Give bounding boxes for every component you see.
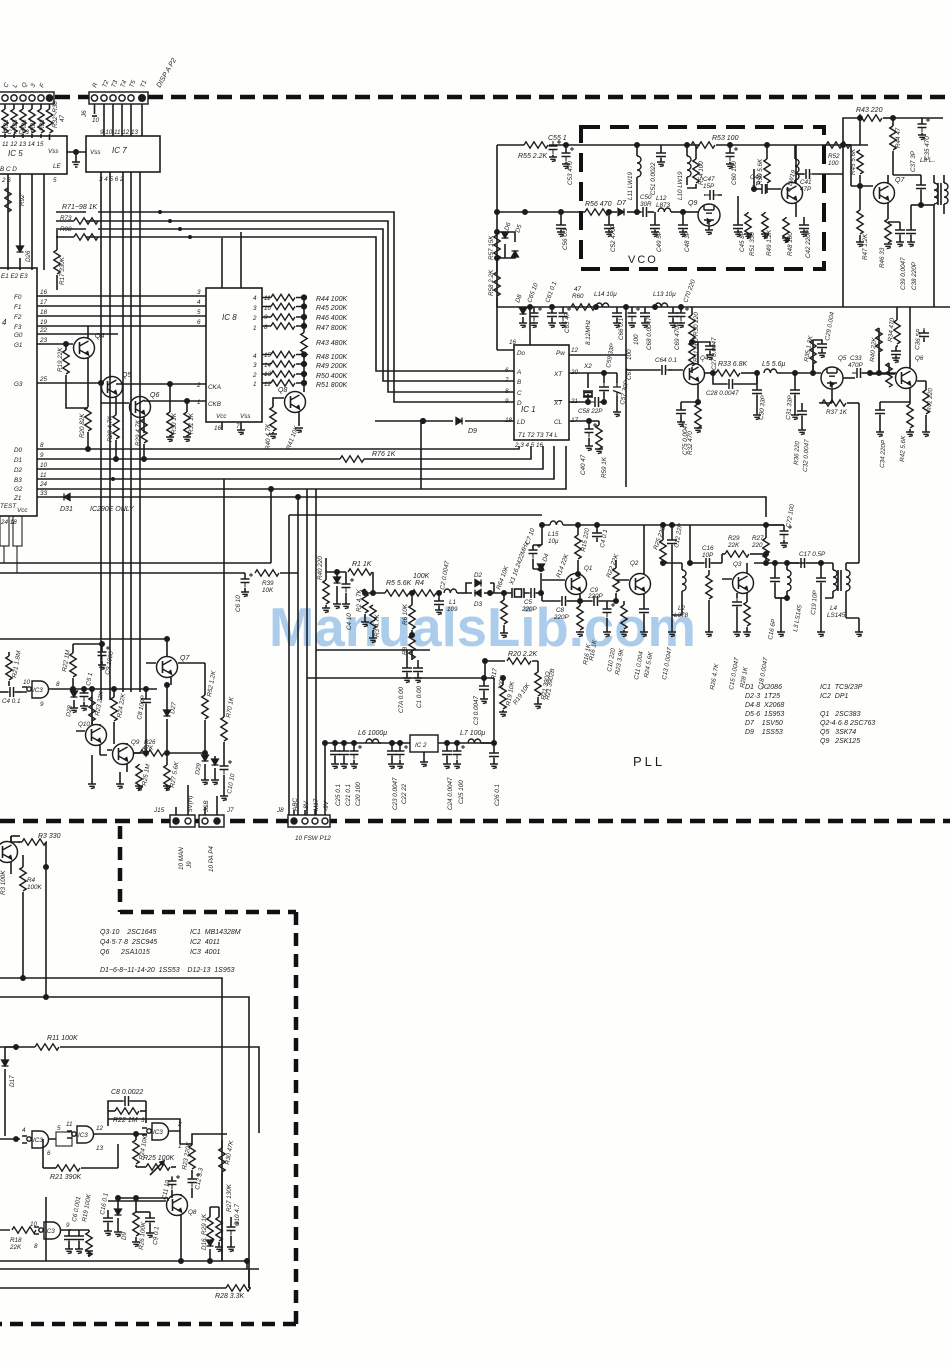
inductor L6 1000u bbox=[366, 739, 381, 743]
resistor R21b 390 (vertical) bbox=[534, 671, 542, 709]
svg-text:C65 10: C65 10 bbox=[526, 282, 540, 304]
resistors R83-R88 column under P1 bbox=[2, 104, 53, 140]
resistor R5 5.6K bbox=[385, 590, 414, 596]
svg-text:Q6 2SA1015: Q6 2SA1015 bbox=[100, 949, 150, 956]
wire G3 junction bbox=[99, 381, 103, 385]
wire left verticals to J8 bbox=[289, 489, 542, 815]
resistor R33 6.8K bbox=[716, 370, 759, 376]
svg-text:Do: Do bbox=[517, 350, 526, 357]
svg-text:Q8: Q8 bbox=[278, 387, 287, 394]
svg-text:C47: C47 bbox=[703, 176, 715, 183]
svg-text:T2: T2 bbox=[101, 79, 110, 89]
svg-text:22K: 22K bbox=[9, 1244, 22, 1251]
svg-text:T5: T5 bbox=[128, 79, 137, 89]
border: VCO dashed box bbox=[581, 127, 824, 269]
inductor L15a 10u bbox=[655, 303, 668, 307]
svg-text:R41 10K: R41 10K bbox=[285, 425, 300, 451]
wire CKA/CKB verticals bbox=[222, 232, 241, 288]
svg-text:L6 1000μ: L6 1000μ bbox=[358, 730, 387, 737]
svg-text:IC3: IC3 bbox=[153, 1129, 163, 1136]
svg-text:Q7: Q7 bbox=[895, 177, 905, 184]
svg-text:D27: D27 bbox=[169, 701, 178, 714]
svg-text:Q3: Q3 bbox=[733, 561, 742, 568]
svg-text:Vcc: Vcc bbox=[216, 413, 227, 420]
wire C7/D4 tie to rail bbox=[533, 525, 543, 571]
NAND gate IC3b g3 bbox=[142, 1123, 180, 1140]
svg-text:C57 30P: C57 30P bbox=[619, 379, 630, 405]
svg-text:15: 15 bbox=[264, 352, 272, 359]
svg-text:C5: C5 bbox=[524, 599, 533, 606]
svg-text:G2: G2 bbox=[14, 486, 23, 493]
resistor R70 1K (vertical) bbox=[221, 479, 227, 762]
svg-text:D29: D29 bbox=[194, 762, 203, 775]
svg-text:16: 16 bbox=[214, 425, 222, 432]
capacitor C9 1000 bbox=[73, 642, 110, 670]
svg-text:R39: R39 bbox=[262, 580, 274, 587]
resistor R64 10K (vertical) bbox=[500, 591, 508, 638]
connector J8 bbox=[288, 815, 330, 827]
transistor Q8 bbox=[273, 383, 306, 426]
svg-text:2 6: 2 6 bbox=[1, 177, 11, 184]
svg-text:R24 22K: R24 22K bbox=[116, 692, 127, 718]
svg-text:23: 23 bbox=[39, 337, 48, 344]
diode D8 bbox=[519, 307, 527, 328]
resistor R59 1K bbox=[589, 421, 603, 454]
g1 pin labels bbox=[22, 1125, 61, 1157]
resistor R54 100 (vertical) bbox=[687, 145, 699, 188]
resistor R22 1M (vertical) bbox=[70, 644, 76, 691]
inductor L2 (vertical) bbox=[663, 563, 686, 615]
svg-text:100K: 100K bbox=[497, 674, 507, 690]
svg-text:9: 9 bbox=[66, 1222, 70, 1229]
svg-text:3: 3 bbox=[141, 1117, 145, 1124]
resistor R39 10K bbox=[255, 495, 300, 576]
resistor R44 47 (vertical) bbox=[890, 118, 896, 175]
svg-text:R47 800K: R47 800K bbox=[316, 325, 347, 332]
capacitor C40 47 on CL pin bbox=[569, 419, 597, 451]
capacitor C12b 3.3 bbox=[188, 1173, 201, 1198]
IC8 VCC/VSS ground stubs bbox=[222, 422, 245, 435]
svg-text:Z1: Z1 bbox=[13, 495, 21, 502]
capacitor C62 (electrolytic) bbox=[628, 307, 641, 328]
svg-text:L10 LW19: L10 LW19 bbox=[677, 171, 684, 200]
svg-text:11: 11 bbox=[66, 1121, 73, 1128]
diode D28 bbox=[70, 689, 78, 713]
svg-text:R28 4.7K: R28 4.7K bbox=[107, 415, 114, 442]
wire J8 stubs bbox=[294, 743, 325, 815]
svg-text:R17 330K: R17 330K bbox=[59, 256, 66, 285]
svg-text:L11 LW19: L11 LW19 bbox=[627, 171, 634, 200]
wire x859 vertical Q5 to L4 bbox=[858, 403, 860, 563]
transistor Q4 bbox=[37, 326, 95, 407]
svg-text:R43 220: R43 220 bbox=[856, 107, 883, 114]
resistor R40 4.7K bbox=[269, 407, 277, 439]
wire IC1 pin16 to rail bbox=[497, 307, 530, 350]
inductor L15 10u bbox=[550, 521, 563, 525]
svg-text:D7 1SV50: D7 1SV50 bbox=[745, 720, 783, 727]
R52 100 wire to right bbox=[843, 144, 868, 146]
svg-text:IC 1: IC 1 bbox=[521, 405, 536, 414]
svg-text:R2 4.7K: R2 4.7K bbox=[356, 588, 363, 612]
wire y650 bbox=[316, 649, 430, 651]
svg-text:R44 47: R44 47 bbox=[895, 127, 902, 148]
svg-text:IC1 MB14328M: IC1 MB14328M bbox=[190, 929, 241, 936]
resistor R28 4.7K bbox=[113, 415, 119, 461]
svg-text:6: 6 bbox=[197, 319, 201, 326]
svg-text:C8: C8 bbox=[556, 607, 565, 614]
svg-text:100K: 100K bbox=[27, 884, 43, 891]
capacitor C60 100 bbox=[726, 145, 739, 169]
capacitor C4a 10 bbox=[342, 572, 355, 609]
svg-text:F1: F1 bbox=[14, 304, 21, 311]
resistor R6 10K (vertical) bbox=[409, 593, 415, 637]
transistor Q10 bbox=[76, 724, 107, 755]
resistor R27b 130K vertical bbox=[210, 1207, 223, 1252]
svg-text:220P: 220P bbox=[587, 593, 604, 600]
svg-text:C23 0.0047: C23 0.0047 bbox=[392, 777, 399, 810]
svg-text:D2·3 1T25: D2·3 1T25 bbox=[745, 693, 780, 700]
svg-text:220P: 220P bbox=[553, 614, 570, 621]
svg-text:14: 14 bbox=[264, 362, 272, 369]
svg-text:C40 47: C40 47 bbox=[580, 454, 587, 475]
gate IC3b g4 bbox=[0, 1222, 71, 1239]
wire bottom horizontals bbox=[0, 1259, 259, 1288]
svg-text:2: 2 bbox=[196, 382, 201, 389]
svg-text:D0: D0 bbox=[14, 447, 23, 454]
resistor R40b 22K (vertical) bbox=[870, 328, 896, 375]
capacitor C38 220P bbox=[906, 205, 916, 247]
transformer L8 bbox=[921, 175, 948, 230]
resistor R30 1K with ground bbox=[166, 384, 174, 442]
resistor R23b 220K (vertical) bbox=[189, 1144, 195, 1175]
svg-text:C66 0.1: C66 0.1 bbox=[618, 318, 625, 340]
svg-text:C26 0.1: C26 0.1 bbox=[494, 784, 501, 806]
trimmer C57 30P bbox=[604, 373, 621, 417]
PLL parts list left column bbox=[745, 684, 784, 736]
svg-text:C36 5P: C36 5P bbox=[914, 328, 923, 350]
capacitor C63 47 bbox=[559, 307, 572, 328]
resistor R4 100K bbox=[412, 590, 441, 596]
capacitor C25 0.1 bbox=[330, 743, 340, 769]
transistor Q2 bbox=[616, 525, 651, 601]
svg-text:R19 100K: R19 100K bbox=[81, 1193, 93, 1223]
IC5 labels bbox=[0, 129, 62, 184]
svg-text:C16: C16 bbox=[702, 545, 714, 552]
svg-text:D7: D7 bbox=[617, 200, 627, 207]
resistor R3 4.7K (vertical) bbox=[369, 605, 377, 643]
svg-text:C48 3P: C48 3P bbox=[684, 230, 691, 252]
NAND gate IC3b g1 bbox=[0, 1131, 56, 1148]
svg-text:A: A bbox=[516, 369, 521, 376]
resistor R19 22K bbox=[63, 342, 88, 408]
transistor Q4 pll bbox=[672, 342, 705, 402]
svg-text:R27: R27 bbox=[752, 535, 764, 542]
resistor R58 2.2K (vertical) bbox=[494, 258, 500, 307]
capacitor C29 0.0047 bbox=[813, 339, 827, 358]
svg-text:4: 4 bbox=[197, 299, 201, 306]
svg-text:T3: T3 bbox=[110, 79, 119, 89]
svg-text:16: 16 bbox=[509, 339, 517, 346]
svg-text:C4 10: C4 10 bbox=[346, 613, 353, 630]
J15 wire stubs bbox=[176, 785, 188, 815]
svg-text:L2: L2 bbox=[678, 605, 686, 612]
svg-text:C52 470P: C52 470P bbox=[610, 223, 617, 252]
svg-text:B3: B3 bbox=[14, 477, 22, 484]
svg-text:2 3 4 5 16: 2 3 4 5 16 bbox=[514, 442, 544, 449]
svg-text:33: 33 bbox=[40, 490, 48, 497]
svg-text:C19 10P: C19 10P bbox=[810, 589, 819, 615]
svg-text:C46: C46 bbox=[750, 174, 762, 181]
crystal X2 bbox=[569, 373, 604, 402]
svg-text:3 4 5 6 2: 3 4 5 6 2 bbox=[99, 176, 124, 183]
svg-text:R15 220: R15 220 bbox=[580, 527, 591, 552]
transistor Q7 low bbox=[146, 657, 178, 686]
svg-text:F0: F0 bbox=[14, 294, 22, 301]
J7 wire stubs bbox=[205, 796, 217, 815]
svg-text:C68 0.0047: C68 0.0047 bbox=[646, 317, 653, 350]
capacitor C11 0.0047 below Q2 bbox=[639, 601, 649, 637]
svg-text:Q9 2SK125: Q9 2SK125 bbox=[820, 738, 860, 745]
svg-text:24 18: 24 18 bbox=[0, 519, 17, 526]
capacitor C34 220P (vertical) bbox=[875, 402, 910, 437]
capacitor C31 33P (vertical) bbox=[790, 373, 800, 420]
svg-text:R3 100K: R3 100K bbox=[0, 870, 7, 895]
resistor R51 330 (vertical) bbox=[744, 212, 752, 239]
resistor R76 1K in D1 line bbox=[340, 455, 364, 463]
svg-text:XT: XT bbox=[553, 371, 563, 378]
svg-text:J8: J8 bbox=[276, 807, 284, 814]
svg-text:R3 330: R3 330 bbox=[38, 833, 61, 840]
resistor R29b 22K bbox=[722, 551, 766, 563]
wire rail y743 bbox=[323, 741, 496, 745]
svg-text:C49 5P: C49 5P bbox=[656, 230, 663, 252]
resistor R20 82K bbox=[85, 407, 91, 451]
svg-text:C29 0.004: C29 0.004 bbox=[824, 311, 836, 341]
wire Pw pin bbox=[569, 307, 626, 487]
svg-text:B C D: B C D bbox=[0, 166, 17, 173]
svg-text:3: 3 bbox=[29, 82, 37, 89]
svg-text:ManualsLib.com: ManualsLib.com bbox=[269, 597, 696, 658]
wire row y572 bbox=[326, 570, 346, 574]
svg-text:11: 11 bbox=[40, 472, 47, 479]
connector J6 DISP A P2 bbox=[89, 92, 148, 104]
svg-text:L5 5.6μ: L5 5.6μ bbox=[762, 361, 785, 368]
svg-text:16: 16 bbox=[40, 289, 48, 296]
resistor R27 5.6K (vertical) bbox=[163, 751, 171, 791]
svg-text:D16, R29 1K: D16, R29 1K bbox=[201, 1213, 208, 1250]
capacitor C28 0.0047 (bypass) bbox=[713, 373, 757, 389]
svg-text:D5·6 1S953: D5·6 1S953 bbox=[745, 711, 784, 718]
svg-text:9: 9 bbox=[40, 452, 44, 459]
transistor Q11 bbox=[107, 743, 134, 772]
svg-text:R4: R4 bbox=[415, 580, 424, 587]
svg-text:R29: R29 bbox=[728, 535, 740, 542]
svg-text:C30 33P: C30 33P bbox=[758, 394, 767, 420]
NAND gate IC3b g2 bbox=[67, 1126, 108, 1143]
capacitor C12 22P (vertical) bbox=[667, 525, 677, 595]
resistor R16 1K (vertical) below Q1 bbox=[576, 601, 584, 637]
transistor Q7 bbox=[874, 175, 895, 217]
diode D17 (vertical) bbox=[2, 1047, 17, 1136]
svg-text:Q6: Q6 bbox=[150, 392, 159, 399]
svg-text:Q4: Q4 bbox=[700, 355, 709, 362]
svg-text:R52 1.2K: R52 1.2K bbox=[206, 669, 218, 697]
svg-text:R70 1K: R70 1K bbox=[225, 696, 236, 719]
resistor R26 4.7K (vertical) bbox=[705, 570, 713, 637]
capacitor C65 10 bbox=[530, 307, 543, 328]
svg-text:7: 7 bbox=[505, 377, 509, 384]
wire Q7 base bbox=[851, 145, 873, 186]
svg-text:18: 18 bbox=[505, 417, 513, 424]
svg-text:Q5: Q5 bbox=[838, 355, 847, 362]
wires J6 to IC7 bbox=[92, 104, 142, 136]
IC4 box (cut at left edge) bbox=[0, 268, 37, 516]
svg-text:24: 24 bbox=[39, 481, 48, 488]
capacitor C68 0.0047 bbox=[640, 307, 650, 328]
svg-text:R43 480K: R43 480K bbox=[316, 340, 347, 347]
connector P1 pin labels bbox=[2, 81, 46, 88]
capacitor C33 470P bbox=[843, 368, 872, 378]
svg-text:IC 7: IC 7 bbox=[112, 146, 127, 155]
svg-text:Q5: Q5 bbox=[122, 372, 131, 379]
diode D4 bbox=[538, 564, 545, 595]
svg-text:D4·8 X2068: D4·8 X2068 bbox=[745, 702, 784, 709]
svg-text:C38 220P: C38 220P bbox=[911, 261, 918, 290]
svg-text:D2: D2 bbox=[14, 467, 23, 474]
svg-text:R30 1K: R30 1K bbox=[171, 412, 178, 434]
svg-text:F2: F2 bbox=[14, 314, 22, 321]
diode D30 (vertical) bbox=[211, 756, 219, 785]
svg-text:1P: 1P bbox=[752, 181, 761, 188]
capacitor C46 1P bbox=[752, 169, 771, 194]
connector P1 (top-left, cut) bbox=[0, 92, 54, 104]
svg-text:470P: 470P bbox=[848, 362, 864, 369]
bottom connector rotated labels bbox=[178, 835, 331, 872]
capacitor C5 1 bbox=[80, 687, 93, 711]
svg-text:9: 9 bbox=[505, 398, 509, 405]
grounds under Q10/Q11 bbox=[88, 755, 124, 789]
FET Q5 pll bbox=[795, 367, 843, 403]
svg-text:IC 5: IC 5 bbox=[8, 149, 23, 158]
svg-text:R20 82K: R20 82K bbox=[79, 413, 86, 438]
capacitor C72 100 bbox=[766, 525, 792, 548]
resistor ladder R44-R47 bbox=[262, 294, 306, 332]
capacitor C24 0.0047 bbox=[442, 743, 452, 769]
svg-text:C4 0.1: C4 0.1 bbox=[2, 698, 21, 705]
svg-text:8: 8 bbox=[56, 681, 60, 688]
resistor R47 1.2K (vertical) bbox=[856, 197, 864, 247]
svg-text:C31 33P: C31 33P bbox=[785, 394, 794, 420]
svg-text:22: 22 bbox=[39, 327, 48, 334]
PLL parts list right column bbox=[820, 684, 875, 745]
wire Q10-Q11 links bbox=[92, 697, 205, 755]
svg-text:R76 1K: R76 1K bbox=[372, 451, 396, 458]
svg-text:R41 220: R41 220 bbox=[926, 387, 934, 412]
svg-text:C60 100: C60 100 bbox=[731, 161, 738, 185]
capacitor C3 0.0047 bbox=[479, 678, 489, 704]
resistor R4 100K (vertical) bbox=[20, 855, 26, 978]
svg-text:L14 10μ: L14 10μ bbox=[594, 291, 617, 298]
svg-text:C3 0.0047: C3 0.0047 bbox=[473, 695, 480, 725]
capacitor C64 0.1 bbox=[626, 365, 672, 375]
capacitor C8 0.0022 bbox=[108, 1096, 146, 1111]
svg-text:100: 100 bbox=[626, 349, 633, 360]
svg-text:10 PA P4: 10 PA P4 bbox=[208, 846, 215, 872]
svg-text:R45 200K: R45 200K bbox=[316, 305, 347, 312]
svg-text:C: C bbox=[517, 390, 522, 397]
diode D9b vertical bbox=[114, 1196, 122, 1237]
transistor Q1 bbox=[542, 574, 587, 602]
svg-text:E1 E2 E3: E1 E2 E3 bbox=[1, 273, 28, 280]
resistor R29 4.7K bbox=[141, 419, 147, 461]
svg-text:C22 22: C22 22 bbox=[401, 783, 408, 804]
connector J7 bbox=[199, 815, 224, 827]
svg-text:8: 8 bbox=[264, 324, 268, 331]
capacitor C4b 0.1 bbox=[592, 525, 602, 542]
svg-text:R40 22K: R40 22K bbox=[869, 336, 878, 362]
svg-text:R19 22K: R19 22K bbox=[57, 347, 64, 372]
resistor R30b 47K (vertical) bbox=[219, 1140, 225, 1261]
svg-text:C28 0.0047: C28 0.0047 bbox=[706, 390, 739, 397]
capacitor C8 220P bbox=[542, 593, 582, 606]
svg-text:109: 109 bbox=[447, 606, 458, 613]
svg-text:R51 800K: R51 800K bbox=[316, 382, 347, 389]
resistor R22 22K (vertical) bbox=[613, 560, 619, 601]
wires below IC7 (5 long verticals) bbox=[101, 172, 140, 700]
IC5 box bbox=[0, 136, 67, 174]
svg-text:220: 220 bbox=[751, 542, 763, 549]
IC4 labels bbox=[0, 273, 48, 514]
svg-text:R71~98 1K: R71~98 1K bbox=[62, 204, 98, 211]
svg-text:R59 1K: R59 1K bbox=[601, 456, 608, 478]
capacitor C74 0.0047 bbox=[402, 650, 412, 683]
svg-text:10: 10 bbox=[30, 1221, 38, 1228]
svg-text:R1 1K: R1 1K bbox=[352, 561, 372, 568]
svg-text:L15: L15 bbox=[548, 531, 559, 538]
svg-text:R32 470: R32 470 bbox=[687, 431, 694, 455]
capacitor C69 470P bbox=[668, 307, 678, 328]
svg-text:D9 1SS53: D9 1SS53 bbox=[745, 729, 783, 736]
svg-text:T4: T4 bbox=[119, 79, 128, 89]
svg-text:R21 1.8M: R21 1.8M bbox=[11, 650, 23, 679]
svg-text:47P: 47P bbox=[800, 186, 812, 193]
svg-text:R48 100: R48 100 bbox=[787, 232, 794, 256]
svg-text:C1 0.00: C1 0.00 bbox=[416, 685, 423, 708]
svg-text:R37 1K: R37 1K bbox=[826, 409, 848, 416]
transistor Q5 bbox=[37, 377, 206, 416]
svg-text:D4: D4 bbox=[541, 552, 551, 562]
capacitor C61 0.1 bbox=[547, 307, 557, 328]
svg-text:X1 16.2422MHz: X1 16.2422MHz bbox=[508, 540, 531, 587]
svg-text:D31: D31 bbox=[60, 506, 73, 513]
connector J15 bbox=[170, 815, 195, 827]
svg-text:-8V: -8V bbox=[303, 800, 310, 811]
resistor R21 1.8M (vertical) bbox=[6, 652, 12, 686]
bus wires with corner turns into IC1 A,B,C,D bbox=[56, 212, 514, 402]
svg-text:10 FSW P12: 10 FSW P12 bbox=[295, 835, 331, 842]
crystal X1 bbox=[490, 588, 529, 598]
g2 pin labels bbox=[66, 1121, 104, 1152]
svg-text:C25 100: C25 100 bbox=[458, 780, 465, 804]
ladder labels bbox=[316, 296, 347, 389]
resistor R24 22K (vertical) bbox=[111, 689, 117, 743]
svg-text:PLL: PLL bbox=[633, 754, 665, 769]
bus junction dots bbox=[86, 447, 146, 481]
wire Q4 output y373 bbox=[705, 371, 715, 375]
capacitor C2 0.0047 bbox=[434, 593, 444, 615]
svg-text:R27 130K: R27 130K bbox=[226, 1183, 233, 1212]
svg-text:Vss: Vss bbox=[90, 149, 101, 156]
